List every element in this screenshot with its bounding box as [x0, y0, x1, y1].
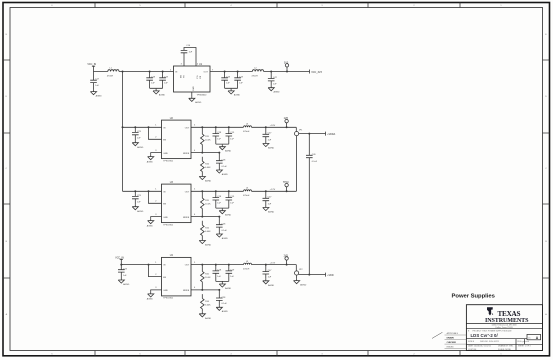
svg-text:TPS72301: TPS72301: [163, 298, 174, 300]
svg-text:LDS Cvr'-2 0/: LDS Cvr'-2 0/: [471, 333, 499, 338]
svg-text:VCC_3V3: VCC_3V3: [311, 71, 322, 74]
svg-text:0.1uF: 0.1uF: [312, 161, 318, 163]
svg-text:+VDD: +VDD: [327, 274, 334, 277]
svg-text:AGND: AGND: [300, 284, 307, 287]
svg-text:FILE: pwr.sch: FILE: pwr.sch: [518, 340, 529, 343]
svg-text:EN: EN: [180, 75, 182, 78]
svg-text:TPS72301: TPS72301: [163, 224, 174, 226]
svg-text:Power Supplies: Power Supplies: [452, 294, 496, 300]
svg-text:470nH: 470nH: [107, 75, 114, 77]
svg-text:+1.8V: +1.8V: [270, 125, 276, 127]
svg-text:SIZE B: SIZE B: [468, 341, 475, 343]
svg-text:DATE: 10/24/2012 11:02:11: DATE: 10/24/2012 11:02:11: [468, 345, 491, 348]
svg-text:TP10: TP10: [283, 181, 289, 184]
svg-text:TEXAS: TEXAS: [498, 310, 521, 318]
svg-text:+VDDA: +VDDA: [327, 133, 335, 136]
svg-text:TPS84620: TPS84620: [197, 94, 208, 96]
svg-text:APPROVALS: APPROVALS: [447, 332, 459, 335]
svg-text:DRAWN BY: WRL: DRAWN BY: WRL: [498, 345, 513, 348]
svg-text:PG: PG: [197, 75, 199, 78]
svg-text:CHECKED: CHECKED: [447, 342, 457, 344]
svg-text:rev: rev: [528, 337, 531, 340]
svg-text:PAD: PAD: [192, 86, 195, 91]
svg-text:DWG NO. SCH-10221: DWG NO. SCH-10221: [480, 341, 499, 343]
svg-text:OUT: OUT: [204, 72, 209, 74]
svg-text:3V3: 3V3: [284, 61, 289, 64]
svg-text:+1.2V: +1.2V: [270, 189, 276, 191]
svg-text:DRAWN: DRAWN: [447, 336, 455, 339]
svg-text:SHEET 1 OF 3: SHEET 1 OF 3: [518, 346, 531, 348]
svg-text:470nH: 470nH: [252, 75, 259, 77]
svg-text:AGND: AGND: [195, 101, 202, 104]
svg-text:+2.5V: +2.5V: [270, 262, 276, 264]
svg-text:CUSTOM: CUSTOM: [468, 349, 477, 351]
svg-text:TPS72301: TPS72301: [163, 160, 174, 162]
svg-text:AGND: AGND: [96, 95, 103, 98]
svg-text:1V8: 1V8: [284, 117, 289, 120]
svg-text:ISSUED: ISSUED: [447, 346, 455, 348]
svg-text:SCALE: NONE: SCALE: NONE: [498, 348, 511, 351]
svg-text:2V5: 2V5: [284, 255, 289, 258]
